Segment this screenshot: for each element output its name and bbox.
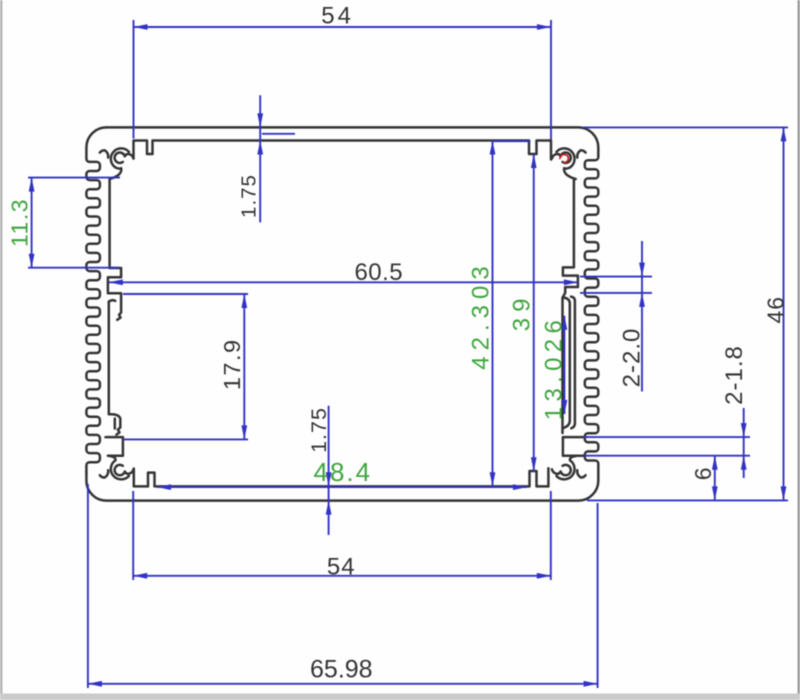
- dimension 48.4: [157, 486, 527, 488]
- right wall lower tab: [563, 437, 583, 456]
- screw boss bottom-left: [100, 456, 134, 480]
- bottom wall inner line with notches: [134, 468, 549, 486]
- screw boss top-right: [552, 148, 586, 179]
- red mark at top-right boss: [560, 155, 568, 163]
- dimension 39: [533, 154, 535, 471]
- left wall inner face with slot tabs and screw flutes: [108, 179, 121, 298]
- svg-text:60.5: 60.5: [354, 259, 403, 286]
- svg-text:6: 6: [690, 466, 716, 480]
- svg-text:11.3: 11.3: [7, 198, 33, 247]
- profile outer left finned edge: [86, 127, 106, 472]
- dimension 17.9: [243, 294, 245, 439]
- dimension 42.303: [493, 140, 531, 142]
- screw boss top-left: [100, 148, 134, 179]
- dimension 6: [714, 456, 716, 501]
- dimension 1.75 bottom wall: [328, 406, 330, 535]
- dimension 13.026: [563, 316, 565, 414]
- svg-text:1.75: 1.75: [307, 407, 331, 453]
- dimension 54 top: [134, 26, 552, 28]
- dimension 1.75 top wall: [259, 95, 261, 222]
- svg-text:48.4: 48.4: [313, 457, 372, 487]
- svg-text:2-2.0: 2-2.0: [619, 328, 646, 388]
- profile outer silhouette top/right/bottom: [86, 127, 598, 500]
- top wall inner line with notches: [134, 141, 552, 160]
- svg-text:42.303: 42.303: [468, 260, 495, 369]
- screw boss bottom-right: [552, 456, 586, 480]
- right wall screw groove (leaf): [564, 298, 570, 428]
- photo edge artifacts: [0, 0, 3, 700]
- dimension 65.98 overall: [88, 683, 598, 685]
- svg-text:2-1.8: 2-1.8: [721, 345, 748, 405]
- svg-text:54: 54: [321, 3, 354, 30]
- svg-text:65.98: 65.98: [310, 656, 373, 684]
- svg-text:39: 39: [509, 293, 536, 332]
- dimension 46: [783, 127, 785, 500]
- dimension 54 bottom: [133, 575, 551, 577]
- svg-text:46: 46: [763, 296, 789, 324]
- right wall inner face with slot tabs: [563, 179, 578, 433]
- dimension 2-1.8: [743, 408, 745, 478]
- svg-text:54: 54: [327, 554, 356, 581]
- svg-text:17.9: 17.9: [219, 338, 245, 390]
- svg-text:13.026: 13.026: [541, 315, 568, 420]
- left wall lower tab: [106, 437, 123, 456]
- dimension 60.5: [109, 281, 578, 283]
- dimension 2-2.0: [641, 241, 643, 392]
- svg-text:1.75: 1.75: [238, 174, 261, 218]
- dimension 11.3 left: [31, 178, 33, 268]
